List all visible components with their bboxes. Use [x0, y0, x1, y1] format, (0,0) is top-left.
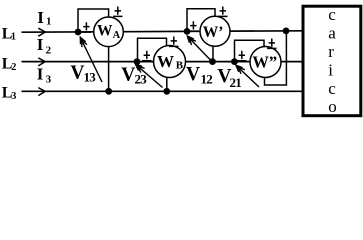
svg-text:23: 23 [135, 72, 148, 87]
svg-text:3: 3 [46, 74, 52, 86]
svg-text:2: 2 [11, 62, 16, 73]
svg-text:I: I [37, 35, 44, 54]
svg-text:W: W [157, 52, 174, 71]
svg-text:a: a [328, 24, 336, 43]
svg-text:V: V [186, 64, 200, 85]
svg-text:W’: W’ [203, 24, 224, 41]
svg-text:I: I [37, 64, 44, 83]
svg-text:13: 13 [84, 69, 97, 84]
svg-text:V: V [70, 62, 84, 83]
svg-text:A: A [113, 30, 121, 41]
svg-text:r: r [328, 42, 334, 61]
svg-text:o: o [328, 97, 337, 116]
svg-text:V: V [121, 65, 135, 86]
svg-text:1: 1 [11, 32, 16, 43]
svg-text:c: c [328, 79, 336, 98]
svg-text:1: 1 [46, 16, 52, 28]
svg-text:B: B [176, 60, 184, 72]
svg-text:W”: W” [252, 52, 277, 71]
svg-text:21: 21 [230, 75, 242, 90]
svg-text:3: 3 [11, 91, 16, 102]
svg-text:c: c [328, 5, 336, 24]
svg-text:W: W [97, 22, 113, 39]
svg-text:I: I [37, 8, 44, 27]
svg-text:2: 2 [46, 45, 52, 57]
svg-text:12: 12 [201, 72, 213, 87]
svg-text:i: i [328, 60, 333, 79]
